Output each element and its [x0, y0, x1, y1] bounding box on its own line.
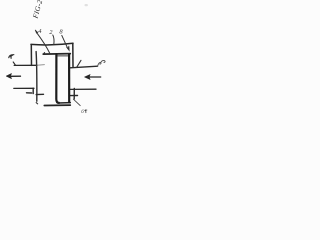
right pipe bottom line [70, 88, 96, 90]
leader from 2 [53, 35, 54, 45]
filter top plate [43, 53, 70, 56]
left outflow arrow shaft [10, 75, 20, 77]
right inflow arrow head [84, 74, 90, 79]
housing left outer wall lower stub [32, 88, 34, 93]
inner liner wall left [35, 52, 38, 102]
housing bottom-right edge [70, 95, 77, 97]
left pipe end up-tick [13, 62, 15, 65]
tick after numeral 6 [85, 110, 87, 113]
housing top edge [31, 43, 73, 45]
housing left outer wall upper [30, 45, 32, 66]
faint smudge top right [85, 4, 88, 6]
left pipe top faint overshoot [37, 64, 44, 67]
filter inner top line [58, 55, 68, 57]
liner bottom foot [36, 103, 37, 104]
housing bottom-left edge [27, 92, 32, 94]
filter element right wall [68, 54, 70, 102]
housing right wall upper [72, 43, 74, 66]
left pipe top line [14, 64, 37, 66]
leader to numeral 6 bottom right [73, 99, 80, 105]
housing bottom segment left of drain [36, 93, 43, 95]
right inflow arrow shaft [88, 76, 101, 78]
filter top plate left hook [43, 53, 44, 54]
right port slash tick [77, 60, 81, 67]
housing right wall lower [73, 88, 75, 99]
left pipe bottom line [14, 87, 34, 89]
right pipe end curl numeral 12 [98, 60, 106, 66]
numeral glyph left of inlet pipe [9, 55, 14, 58]
figure label FIG-2 (rotated) [31, 0, 44, 20]
leader from 4 with arrowhead [37, 33, 50, 54]
leader from 8 with arrowhead [62, 35, 68, 48]
left outflow arrow head [6, 73, 12, 78]
filter element left wall [56, 55, 59, 103]
filter element bottom edge [59, 102, 71, 104]
right pipe top line [70, 66, 97, 68]
drain lower line [44, 104, 70, 106]
